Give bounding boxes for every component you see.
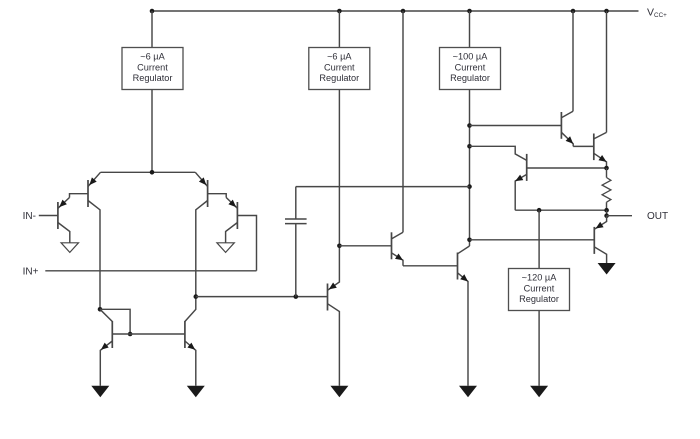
node input-top: [150, 170, 155, 175]
node cap-bottom: [294, 294, 299, 299]
svg-text:Regulator: Regulator: [519, 294, 559, 304]
wire Q10 emitter line: [515, 209, 606, 211]
wire regulator 3 main vertical: [469, 90, 471, 247]
wire Q4 base to IN+: [237, 216, 256, 271]
wire rail to Q11 collector: [572, 11, 574, 111]
wire regulator 4 to ground: [538, 311, 540, 386]
node mirror-base: [128, 332, 133, 337]
node C2: [467, 144, 472, 149]
node C1: [467, 123, 472, 128]
svg-text:~6 µA: ~6 µA: [140, 52, 165, 62]
wire mirror diode bracket: [100, 309, 130, 334]
node rail-2: [337, 9, 342, 14]
wire Q8 emitter to Q9 base: [403, 265, 458, 267]
ground Q7: [330, 386, 348, 398]
svg-text:~120 µA: ~120 µA: [522, 273, 558, 283]
transistor Q6 (mirror right): [184, 321, 186, 348]
ground Q5: [91, 386, 109, 398]
svg-text:~100 µA: ~100 µA: [453, 52, 489, 62]
node R-bottom: [604, 208, 609, 213]
node OUT: [604, 213, 609, 218]
svg-text:Current: Current: [455, 62, 486, 72]
wire regulator 2 down to node B: [338, 90, 340, 246]
current regulator 3 (~100 uA): [440, 48, 501, 90]
capacitor C1: [295, 224, 297, 297]
current regulator 4 (~120 uA): [509, 269, 570, 311]
transistor Q11: [560, 112, 562, 139]
wire cap top to node C3: [296, 186, 470, 188]
wire regulator 1 to input stage: [151, 90, 153, 173]
transistor Q13: [593, 227, 595, 254]
svg-text:OUT: OUT: [647, 211, 668, 222]
node rail-6: [604, 9, 609, 14]
current regulator 1 (~6 uA): [122, 48, 183, 90]
node rail-4: [467, 9, 472, 14]
transistor Q2: [87, 180, 89, 207]
transistor Q3: [207, 180, 209, 207]
node D: [604, 166, 609, 171]
ground Q9: [459, 386, 477, 398]
wire node B to Q8 base: [339, 245, 391, 247]
svg-text:Regulator: Regulator: [319, 73, 359, 83]
wire OUT stub: [607, 215, 632, 217]
transistor Q7: [327, 284, 329, 311]
wire Q10 base to node D: [527, 167, 607, 169]
node rail-3: [401, 9, 406, 14]
transistor Q1: [57, 202, 59, 229]
node C3: [467, 184, 472, 189]
wire rail to regulator 1: [151, 11, 153, 48]
transistor Q4: [236, 202, 238, 229]
svg-text:IN+: IN+: [23, 266, 39, 277]
current regulator 2 (~6 uA): [309, 48, 370, 90]
wire node reg4-top to regulator 4: [538, 210, 540, 268]
wire mirror base link: [112, 333, 185, 335]
node rail-5: [571, 9, 576, 14]
wire rail to regulator 3: [469, 11, 471, 48]
ground open triangle under Q4: [217, 243, 234, 253]
wire input stage top node: [101, 171, 196, 173]
wire IN+ line: [45, 270, 256, 272]
wire VCC rail: [152, 10, 639, 12]
node rail-1: [150, 9, 155, 14]
ground open triangle under Q1: [61, 243, 78, 253]
resistor R1: [606, 168, 608, 178]
node C4: [467, 238, 472, 243]
svg-text:Regulator: Regulator: [450, 73, 490, 83]
wire node C2 to Q10 collector: [470, 146, 527, 160]
transistor Q10: [526, 154, 528, 181]
wire rail to Q8 collector: [402, 11, 404, 232]
svg-text:IN-: IN-: [23, 211, 36, 222]
node B: [337, 244, 342, 249]
svg-text:Current: Current: [324, 62, 355, 72]
transistor Q9: [457, 253, 459, 280]
wire mirror to Q7 base: [196, 296, 328, 298]
wire Q3-Q4 base link: [208, 194, 227, 198]
wire Q1-Q2 base link: [70, 194, 89, 198]
node mirror-right: [194, 294, 199, 299]
wire Q11 emitter to Q12 base: [573, 145, 594, 147]
transistor Q5 (mirror left): [111, 321, 113, 348]
wire node C1 to Q11 base: [470, 125, 562, 127]
svg-text:Current: Current: [524, 283, 555, 293]
ground Q6: [187, 386, 205, 398]
svg-text:Regulator: Regulator: [133, 73, 173, 83]
wire IN- to Q1 base: [39, 215, 58, 217]
wire rail to regulator 2: [338, 11, 340, 48]
ground Q13: [598, 263, 616, 275]
svg-text:~6 µA: ~6 µA: [327, 52, 352, 62]
ground regulator 4: [530, 386, 548, 398]
svg-text:Current: Current: [137, 62, 168, 72]
transistor Q12: [593, 134, 595, 161]
node mirror-left: [98, 307, 103, 312]
wire node C4 to Q13 base: [470, 239, 595, 241]
wire rail to Q12 collector: [606, 11, 608, 132]
transistor Q8: [391, 232, 393, 259]
node reg4-top: [537, 208, 542, 213]
